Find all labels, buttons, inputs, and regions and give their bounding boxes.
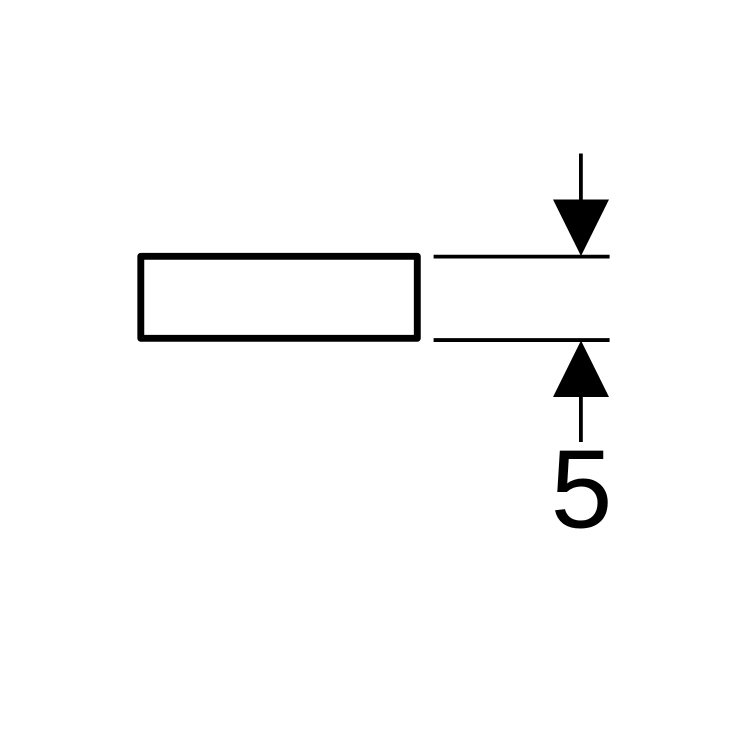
bottom arrowhead	[553, 341, 609, 398]
top arrow stem	[579, 154, 583, 211]
bottom extension line	[434, 338, 610, 342]
bottom arrow stem	[579, 386, 583, 442]
top extension line	[434, 255, 610, 259]
svg-text:5: 5	[551, 428, 613, 552]
top arrowhead	[553, 200, 609, 257]
plate rectangle	[141, 256, 418, 338]
